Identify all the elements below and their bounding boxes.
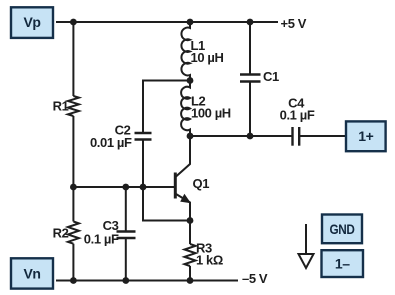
transistor Q1 base bar	[174, 173, 177, 199]
transistor Q1 emitter	[176, 194, 190, 221]
wire C1 bottom to mid rail	[249, 82, 251, 137]
capacitor C2	[135, 132, 152, 134]
node R3 bottom junction	[187, 277, 194, 284]
wire left rail	[72, 22, 74, 96]
node C3 top junction	[122, 184, 129, 191]
svg-text:Vn: Vn	[23, 265, 40, 281]
terminal box 1-	[322, 250, 364, 277]
node L2 bottom junction	[187, 133, 194, 140]
resistor R2	[68, 222, 79, 244]
inductor L2	[181, 81, 190, 137]
svg-text:1 kΩ: 1 kΩ	[196, 253, 223, 268]
wire mid rail	[190, 135, 292, 137]
transistor Q1 emitter arrow	[180, 194, 191, 204]
wire C4 to 1+ box	[299, 135, 346, 137]
capacitor C3	[125, 187, 127, 232]
node C1 bottom junction	[247, 133, 254, 140]
svg-text:+5 V: +5 V	[281, 16, 307, 31]
wire bottom -5V rail	[56, 280, 238, 282]
node L1-L2 junction	[187, 77, 194, 84]
node bottom-left junction	[70, 277, 77, 284]
node L1 top junction	[187, 19, 194, 26]
svg-text:GND: GND	[329, 221, 354, 237]
svg-text:0.1 µF: 0.1 µF	[280, 108, 315, 123]
svg-text:–5 V: –5 V	[242, 271, 268, 286]
wire base to emitter feedback	[143, 187, 190, 221]
terminal box GND	[322, 215, 362, 244]
svg-text:0.1 µF: 0.1 µF	[84, 232, 119, 247]
node emitter junction	[187, 217, 194, 224]
svg-text:R2: R2	[53, 226, 69, 241]
node base rail left junction	[70, 184, 77, 191]
node C2 bottom junction	[140, 184, 147, 191]
capacitor C4	[291, 127, 293, 146]
svg-text:C1: C1	[263, 69, 279, 84]
terminal box 1+	[346, 121, 386, 151]
wire base rail	[73, 186, 174, 188]
terminal box Vn	[11, 258, 53, 288]
svg-text:1–: 1–	[335, 256, 350, 272]
svg-text:100 µH: 100 µH	[191, 106, 231, 121]
node top-left junction	[70, 19, 77, 26]
node C1 top junction	[247, 19, 254, 26]
svg-text:1+: 1+	[358, 128, 373, 144]
svg-text:Vp: Vp	[23, 14, 40, 30]
transistor Q1 collector	[176, 136, 190, 177]
svg-text:0.01 µF: 0.01 µF	[90, 135, 132, 150]
terminal box Vp	[11, 7, 53, 38]
svg-text:Q1: Q1	[193, 176, 210, 191]
ground arrow stem	[305, 224, 307, 254]
wire R3 to bottom rail	[189, 266, 191, 281]
wire top +5V rail	[56, 21, 278, 23]
svg-text:R1: R1	[53, 99, 69, 114]
ground triangle	[299, 254, 314, 268]
capacitor C1	[249, 22, 251, 75]
resistor R3	[185, 244, 196, 266]
svg-text:10 µH: 10 µH	[191, 50, 224, 65]
wire C2 bottom to base rail	[142, 140, 144, 188]
wire L1-L2 junction to C2	[143, 81, 190, 134]
resistor R1	[68, 96, 79, 116]
node C3 bottom junction	[122, 277, 129, 284]
wire emitter to R3	[189, 221, 191, 245]
inductor L1	[181, 22, 190, 81]
